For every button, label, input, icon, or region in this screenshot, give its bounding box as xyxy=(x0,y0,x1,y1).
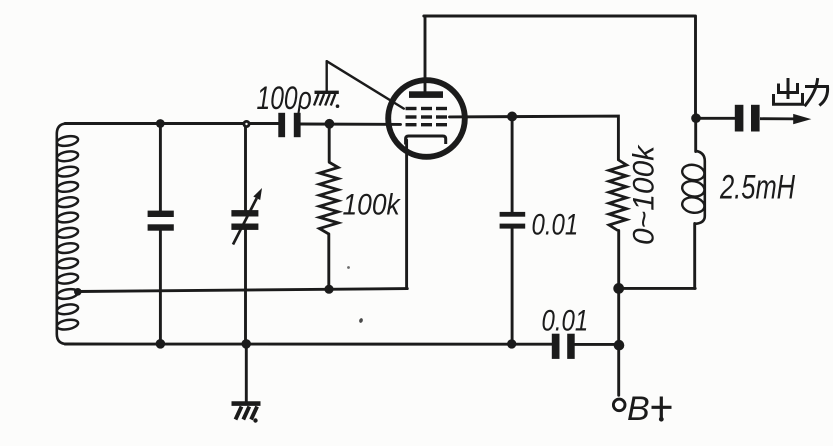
svg-text:B: B xyxy=(627,390,650,428)
svg-text:2.5mH: 2.5mH xyxy=(719,169,795,206)
svg-text:0.01: 0.01 xyxy=(532,207,579,241)
svg-text:0~100k: 0~100k xyxy=(628,144,661,245)
svg-text:100ρ: 100ρ xyxy=(257,81,312,117)
svg-text:100k: 100k xyxy=(343,187,402,221)
svg-text:0.01: 0.01 xyxy=(542,303,589,337)
